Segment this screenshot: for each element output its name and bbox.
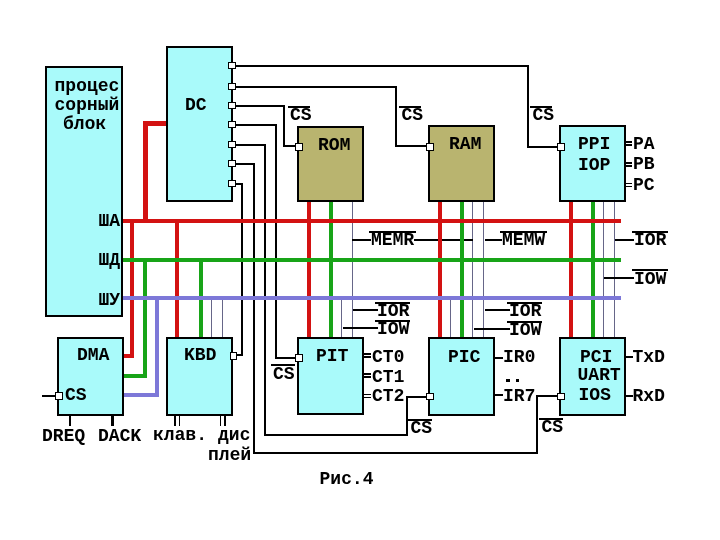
stub KBD display pair: [220, 416, 222, 426]
stub PIC IR0: [495, 357, 503, 359]
wire DC pin7 to KBD pin: [236, 183, 243, 185]
stub PPI PB: [626, 162, 632, 164]
pin PIC CS: [426, 393, 434, 401]
label CS of RAM: [399, 106, 421, 108]
label CS of PIC: [408, 419, 432, 421]
wire DC pin3 to ROM CS: [236, 105, 285, 107]
wire DC pin4 to PIT CS: [236, 124, 277, 126]
control line to KBD 2: [222, 299, 223, 338]
dots between IR0 IR7: [506, 379, 510, 382]
label CS of ROM: [288, 106, 310, 108]
control line ROM to PIT (MEMR/IOR): [352, 202, 353, 338]
pin DC 7: [228, 180, 236, 188]
block PIC: [428, 337, 495, 416]
pin DC 4: [228, 121, 236, 129]
bus SHD (data): [122, 258, 621, 262]
green link bus SHD to KBD: [199, 258, 203, 338]
stub PCI TxD: [626, 356, 633, 358]
pin PCI CS: [557, 393, 565, 401]
stub PIT CT2: [364, 394, 371, 396]
label pley: [208, 450, 251, 463]
control line PPI to PCI 1: [603, 202, 604, 338]
wire DC pin5 to PIC CS: [236, 144, 266, 146]
label dis: [218, 430, 250, 443]
control line SHU to PIC: [450, 299, 451, 338]
stub PIT CT1: [364, 373, 371, 375]
stub KBD keyboard pair: [174, 416, 176, 426]
signal line IOR above PIC: [485, 309, 510, 311]
block DC decoder: [166, 46, 233, 202]
wire DC pin6 to PCI CS: [236, 163, 255, 165]
block PPI IOP: [559, 125, 626, 202]
signal line IOR above PIT: [353, 309, 378, 311]
pin ROM CS: [295, 143, 303, 151]
signal line IOR right of PPI: [615, 239, 634, 241]
pin PIT CS: [295, 354, 303, 362]
wire DC pin1 to PPI CS: [236, 65, 529, 67]
green link RAM to PIC: [460, 202, 464, 338]
caption Ris.4: [320, 474, 374, 487]
pin KBD: [230, 352, 238, 360]
control line PPI to PCI 2: [614, 202, 615, 338]
wire DC pin2 to RAM CS: [236, 86, 397, 88]
green link bus SHD to DMA: [143, 258, 147, 378]
stub PIC IR7: [495, 394, 503, 396]
control line RAM to PIC 2: [483, 202, 484, 338]
label SHU: [99, 295, 121, 308]
label SHD: [99, 255, 121, 268]
control line RAM to PIC 1: [472, 202, 473, 338]
stub PIT CT0: [364, 353, 371, 355]
label DREQ: [42, 431, 85, 444]
control line SHU to PIT: [341, 299, 342, 338]
pin DC 3: [228, 102, 236, 110]
pin DMA CS: [55, 392, 63, 400]
block ROM: [297, 126, 364, 202]
label CS of PPI: [530, 106, 552, 108]
stub PPI PA: [626, 141, 632, 143]
signal line MEMR: [352, 239, 371, 241]
red link bus SHA to KBD: [175, 219, 179, 338]
red link bus SHA to DMA: [130, 219, 134, 357]
pin DC 2: [228, 83, 236, 91]
red link ROM to PIT: [307, 202, 311, 338]
pin DC 6: [228, 160, 236, 168]
bus SHA (address): [122, 219, 621, 223]
block DMA: [57, 337, 124, 416]
red link PPI to PCI: [569, 202, 573, 338]
red link bus SHA to DC: [143, 121, 148, 222]
signal line IOW right of PPI: [604, 277, 634, 279]
stub DMA DACK: [111, 416, 114, 426]
green link PPI to PCI: [591, 202, 595, 338]
signal line IOW above PIC: [474, 328, 510, 330]
block PIT: [297, 337, 364, 415]
violet link bus SHU to DMA: [155, 296, 159, 397]
stub PCI RxD: [626, 395, 633, 397]
green link ROM to PIT: [329, 202, 333, 338]
pin RAM CS: [426, 143, 434, 151]
signal line IOW above PIT: [343, 327, 378, 329]
control line to KBD 1: [211, 299, 212, 338]
red link RAM to PIC: [438, 202, 442, 338]
stub PPI PC: [626, 183, 632, 185]
block KBD: [166, 337, 233, 416]
dash DMA CS: [42, 395, 56, 397]
stub DMA DREQ: [69, 416, 72, 426]
pin DC 5: [228, 141, 236, 149]
pin PPI CS: [557, 143, 565, 151]
label CS of PIT: [271, 364, 295, 366]
block PCI UART IOS: [559, 337, 626, 416]
bus SHU (control): [122, 296, 621, 300]
block RAM: [428, 125, 495, 202]
label SHA: [99, 216, 121, 229]
pin DC 1: [228, 62, 236, 70]
label klav.: [153, 430, 207, 443]
label DACK: [98, 431, 141, 444]
block processor: [45, 66, 123, 317]
signal line MEMW: [485, 239, 502, 241]
label CS of PCI: [539, 418, 563, 420]
